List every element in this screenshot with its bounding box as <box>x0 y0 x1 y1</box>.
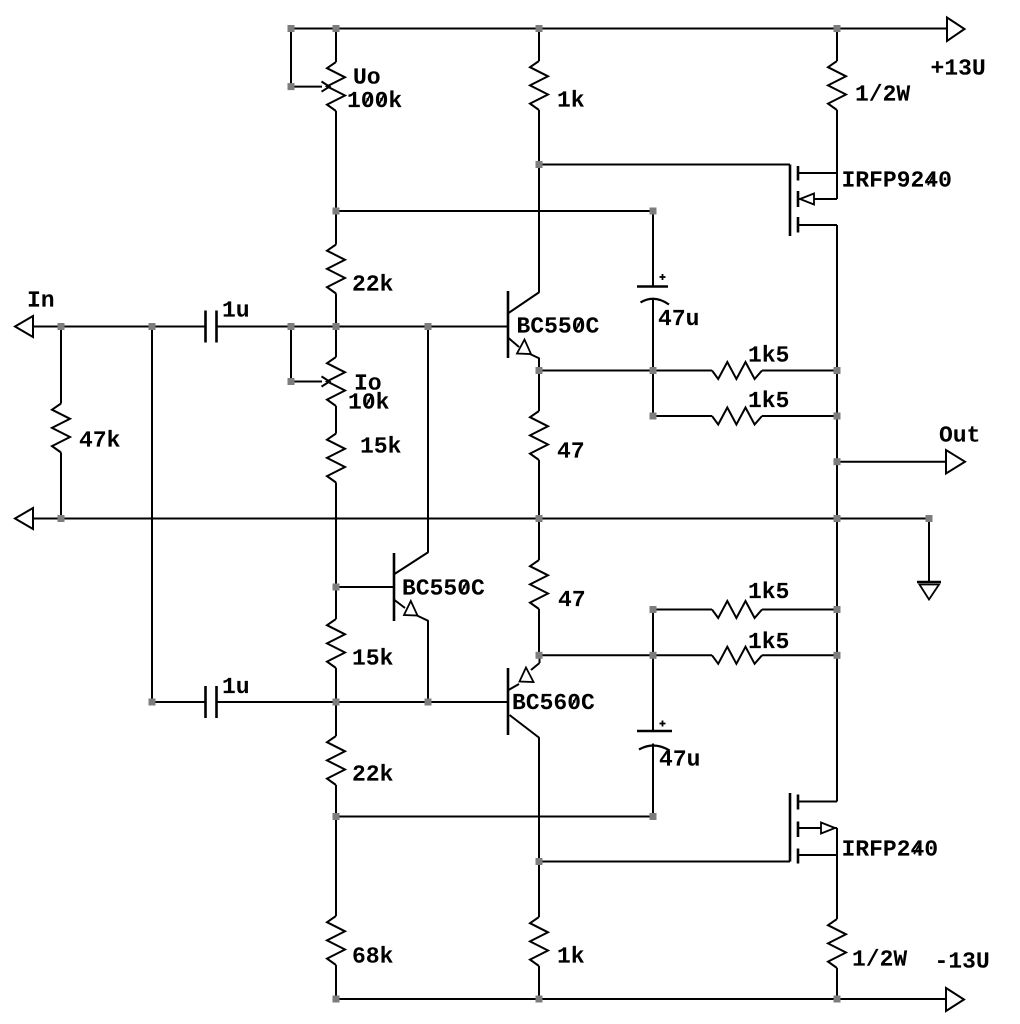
wire gate IRFP240 <box>539 861 790 863</box>
slashed zero IRFP9240 <box>928 173 935 185</box>
node base Q2 <box>333 584 340 591</box>
resistor 1/2W lower <box>828 919 846 968</box>
label 47k <box>80 430 120 447</box>
wire Uo bottom lead <box>335 111 337 211</box>
slashed zero BC550C lower <box>461 581 468 593</box>
wire bottom -13V rail <box>336 998 947 1000</box>
node input / Q2 collector <box>425 323 432 330</box>
node input / Io <box>333 323 340 330</box>
label 1/2W upper <box>857 84 911 101</box>
resistor 1k5 c <box>712 601 762 618</box>
label 10k <box>350 392 389 409</box>
terminal In arrow <box>15 316 33 337</box>
node top rail / 1k <box>536 25 543 32</box>
label Uo <box>354 68 379 83</box>
wire input upper after cap C1 <box>218 326 509 328</box>
node top rail / Uo <box>333 25 340 32</box>
transistor Q2 BC550C lower <box>394 552 429 621</box>
wire ground drop <box>928 519 930 583</box>
node top rail / 1/2W <box>834 25 841 32</box>
node Uo wiper <box>288 83 295 90</box>
resistor 1k lower <box>530 917 548 966</box>
wire 1k top lead <box>538 29 540 62</box>
wire node 336-653 lower <box>336 816 653 818</box>
label 1k5 a <box>750 345 789 362</box>
node ground rail corner <box>926 515 933 522</box>
label 1k upper <box>559 90 585 107</box>
node out rail 1k5 a <box>834 367 841 374</box>
wire emitter BC550C row <box>539 370 712 372</box>
wire cap 47u top lead <box>652 211 654 286</box>
resistor 1k5 b <box>712 408 762 425</box>
wire emitter BC550C stub <box>538 358 540 371</box>
label 1/2W lower <box>854 949 908 966</box>
node bottom rail 68k <box>333 996 340 1003</box>
wire cap 47u bottom lead <box>652 299 654 416</box>
wire 1k to collector BC550C <box>538 110 540 292</box>
node 1k5 c left <box>650 606 657 613</box>
wire 47 bottom leads <box>538 519 540 656</box>
node cap 47u-b bottom <box>650 813 657 820</box>
wire 1k5 c left <box>653 609 712 611</box>
label Io <box>356 374 381 389</box>
label BC550C upper <box>518 317 599 333</box>
resistor 15k upper <box>327 434 345 483</box>
wire source IRFP240 <box>836 855 838 919</box>
slashed zero IRFP240 <box>914 842 921 854</box>
node out rail 1k5 b <box>834 413 841 420</box>
terminal Out arrow <box>946 450 965 474</box>
node ground rail / 47k <box>58 515 65 522</box>
node emitter Q1 <box>536 367 543 374</box>
wire IRFP9240 body link <box>836 173 838 199</box>
wire 1k5 d right <box>762 654 837 656</box>
slashed zero 10k <box>365 395 372 407</box>
node 22k lower bottom <box>333 813 340 820</box>
label 47 upper <box>558 442 583 457</box>
label -13V <box>938 952 988 968</box>
node lower cap wire x152 <box>149 699 156 706</box>
node Io wiper <box>288 378 295 385</box>
node ground rail / out rail <box>834 515 841 522</box>
wire 1k5 b right <box>762 415 837 417</box>
node lower cap wire 15k <box>333 699 340 706</box>
node gate wire IRFP9240 <box>536 161 543 168</box>
wire coupling column x152 <box>151 327 153 703</box>
wire node 336-653 upper <box>336 210 653 212</box>
resistor 15k lower <box>327 619 345 668</box>
terminal lower input arrow <box>15 508 33 529</box>
slashed zeros 100k <box>364 93 384 105</box>
mosfet IRFP9240 <box>790 165 837 237</box>
node out rail 1k5 d <box>834 652 841 659</box>
node Out branch <box>834 458 841 465</box>
resistor 47k <box>52 404 70 453</box>
wire pot Uo left branch <box>290 29 292 87</box>
wire lower cap to BC560C base <box>218 701 509 703</box>
node 22k top <box>333 208 340 215</box>
slashed zero BC560C <box>571 695 578 707</box>
label IRFP240 <box>843 840 937 856</box>
label 1u lower <box>224 678 249 693</box>
node ground rail / 47 <box>536 515 543 522</box>
wire 22k leads <box>335 211 337 327</box>
node gate wire IRFP240 <box>536 858 543 865</box>
wire IRFP240 body link <box>836 828 838 855</box>
label BC560C <box>514 694 595 710</box>
wire 1k5 c right <box>762 609 837 611</box>
wire lower after cap C2 <box>152 701 205 703</box>
wire input upper <box>33 326 205 328</box>
label 1k lower <box>559 946 585 963</box>
wire emitter BC560C row <box>539 654 712 656</box>
wire output rail <box>836 225 838 802</box>
wire BC550C lower collector <box>427 327 429 553</box>
node input / Io left <box>288 323 295 330</box>
wire 68k leads <box>335 817 337 1000</box>
wire cap 47u-b bottom lead <box>652 744 654 817</box>
wire cap 47u-b top lead <box>652 655 654 730</box>
wire pot Io left branch <box>290 327 292 382</box>
label 47u lower <box>660 750 699 765</box>
terminal -13V arrow <box>946 988 964 1011</box>
node out rail 1k5 c <box>834 606 841 613</box>
label 68k <box>353 946 392 963</box>
label 47 lower <box>559 591 584 606</box>
ground <box>917 582 941 600</box>
resistor 22k upper <box>327 245 345 294</box>
node 1k5 b left <box>650 413 657 420</box>
node cap 47u top <box>650 208 657 215</box>
label 100k <box>349 90 402 107</box>
transistor Q1 BC550C upper <box>508 291 540 359</box>
label 1k5 b <box>750 390 789 407</box>
wire source IRFP9240 <box>836 110 838 173</box>
label 47u upper <box>659 310 698 325</box>
wire ground rail <box>33 518 929 520</box>
mosfet IRFP240 <box>790 793 837 864</box>
slashed zero BC550C upper <box>575 319 582 331</box>
resistor 47 upper <box>530 411 548 460</box>
wire 1k5 c-d link <box>652 610 654 656</box>
label 22k lower <box>353 764 392 781</box>
potentiometer Uo 100k <box>291 62 345 111</box>
node input / x152 <box>149 323 156 330</box>
capacitor 47u upper <box>637 274 669 305</box>
label 1u upper <box>224 301 249 316</box>
wire 1/2W bottom lead <box>836 968 838 999</box>
wire 15k-b leads <box>335 587 337 702</box>
label IRFP9240 <box>843 171 950 187</box>
wire Out <box>837 461 946 463</box>
transistor Q3 BC560C <box>508 655 540 738</box>
label Out <box>940 426 978 442</box>
wire collector BC560C to gate wire <box>538 738 540 917</box>
capacitor C1 1u <box>206 311 217 343</box>
node cap 47u bottom <box>650 367 657 374</box>
wire 47 top leads <box>538 371 540 519</box>
wire 1/2W top lead <box>836 29 838 62</box>
wire Uo top lead <box>335 29 337 63</box>
capacitor C2 1u <box>206 686 217 718</box>
label 15k upper <box>362 436 401 453</box>
label In <box>29 291 53 306</box>
label 1k5 c <box>750 581 789 598</box>
wire BC550C lower emitter <box>427 621 429 703</box>
node bottom rail 1k <box>536 996 543 1003</box>
resistor 1/2W upper <box>828 61 846 110</box>
wire 1k bottom lead <box>538 966 540 999</box>
node 1k5 d left <box>650 652 657 659</box>
capacitor 47u lower <box>637 721 672 751</box>
label +13V <box>932 59 985 75</box>
resistor 68k <box>327 916 345 965</box>
wire 47k column <box>60 327 62 519</box>
node lower cap wire Q2 emitter <box>425 699 432 706</box>
resistor 47 lower <box>530 560 548 609</box>
wire 15k lower lead <box>335 483 337 588</box>
label 22k upper <box>353 274 392 291</box>
terminal +13V arrow <box>947 18 965 42</box>
node emitter Q3 <box>536 652 543 659</box>
wire base BC550C lower <box>336 586 394 588</box>
wire Io leads <box>335 327 337 434</box>
potentiometer Io 10k <box>291 357 345 406</box>
label 15k lower <box>354 648 393 665</box>
label 1k5 d <box>750 631 789 648</box>
wire top +13V rail <box>291 28 947 30</box>
wire 1k5 b left <box>653 415 712 417</box>
label BC550C lower <box>404 579 485 595</box>
node input / 47k <box>58 323 65 330</box>
wire R 1k5 a to out rail <box>762 370 837 372</box>
resistor 1k upper <box>530 61 548 110</box>
wire gate IRFP9240 <box>539 164 790 166</box>
resistor 1k5 d <box>712 647 762 664</box>
resistor 1k5 a <box>712 362 762 379</box>
node top rail / pot Uo left <box>288 25 295 32</box>
wire 22k-b leads <box>335 702 337 817</box>
node bottom rail 1/2W <box>834 996 841 1003</box>
resistor 22k lower <box>327 736 345 785</box>
